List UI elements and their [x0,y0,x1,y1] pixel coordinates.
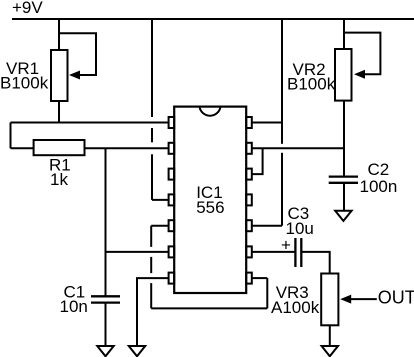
wire VR3 bottom to ground [329,325,331,346]
wire +9V rail [12,18,414,20]
potentiometer VR3 body [321,274,338,326]
wire branch node B to IC pin 6 [106,251,169,253]
svg-text:OUT: OUT [378,288,414,308]
IC1 pin 6 stub [169,246,175,257]
wire C1 to ground [105,303,107,346]
IC1 pin 1 stub [169,117,175,128]
IC1 pin 5 stub [169,220,175,231]
capacitor C1 bottom plate [91,301,120,303]
IC1 pin 4 stub [169,194,175,205]
IC1 pin 8 stub [246,273,252,284]
wire IC pin 14 to +9V drop [252,122,282,124]
wire IC pin 9 to C3 [252,251,295,253]
svg-text:B100k: B100k [0,74,49,93]
IC1 pin 7 stub [169,273,175,284]
IC1 pin 3 stub [169,169,175,180]
wire left vertical drop [10,123,12,149]
IC1 pin 2 stub [169,143,175,154]
svg-text:+: + [281,236,291,255]
wire IC pin 13 to VR2/C2 junction [252,147,344,149]
IC1 pin 10 stub [246,220,252,231]
potentiometer VR2 body [335,49,352,101]
wire IC pin 5 output net down and under IC to pin 8 [151,225,168,227]
wire rail to VR2 top [343,19,345,49]
VR2 wiper loop wire [344,33,380,75]
IC IC1 556 body [174,107,246,293]
wire IC pin 7 to ground [137,278,169,346]
VR1 wiper arrowhead [69,71,80,80]
VR2 wiper arrowhead [354,70,365,79]
svg-text:10u: 10u [286,219,314,238]
ground symbol below VR3 [322,346,338,356]
IC1 pin 13 stub [246,143,252,154]
resistor R1 [34,140,85,155]
svg-text:556: 556 [196,198,224,217]
wire bracket pin 13 to pin 12 [252,148,262,174]
VR1 wiper loop wire [59,33,96,75]
wire +9V right drop to pin 10 (hop gap) [281,19,283,144]
wire C2 to ground [343,183,345,211]
potentiometer VR1 body [51,50,68,101]
IC1 pin 9 stub [246,246,252,257]
VR3 wiper arrow wire [351,298,377,300]
wire R1 right to IC pin 2 [85,147,169,149]
VR3 wiper arrowhead [340,295,351,304]
ground symbol below pin 7 [129,346,145,356]
wire rail drop to IC pin 4 (hop gaps at crossings) [151,19,153,117]
IC1 pin 11 stub [246,194,252,205]
ground symbol below C1 [97,346,113,356]
IC1 pin 12 stub [246,169,252,180]
capacitor C1 top plate [91,295,120,297]
capacitor C2 bottom plate [329,182,358,184]
ground symbol below C2 [335,211,351,221]
wire node A horizontal to IC pin 1 [11,122,169,124]
svg-text:A100k: A100k [271,298,320,317]
wire node B vertical to C1 [105,148,107,296]
IC1 notch [200,107,221,116]
svg-text:1k: 1k [50,170,68,189]
capacitor C3 right plate [300,238,302,267]
wire to R1 left [11,147,34,149]
wire VR1 bottom to node [58,101,60,123]
capacitor C3 left plate [294,238,296,267]
svg-text:10n: 10n [60,297,88,316]
svg-text:+9V: +9V [12,0,43,17]
wire rail to VR1 top [58,19,60,50]
wire C3 to VR3 top [301,252,329,274]
IC1 pin 14 stub [246,117,252,128]
svg-text:B100k: B100k [287,75,336,94]
svg-text:100n: 100n [360,177,398,196]
wire VR2 bottom to C2 [343,101,345,177]
capacitor C2 top plate [329,175,358,177]
